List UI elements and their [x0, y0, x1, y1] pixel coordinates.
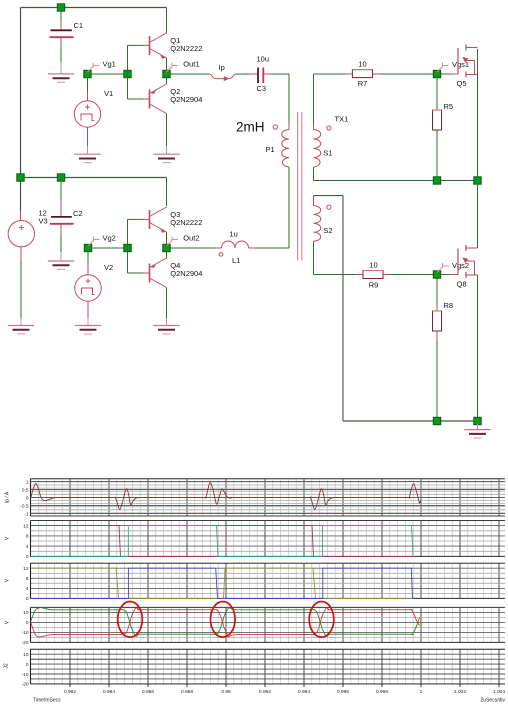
svg-text:0: 0 — [26, 554, 29, 560]
node Vg2 — [84, 244, 91, 251]
svg-text:Out2: Out2 — [183, 234, 199, 243]
svg-text:-20: -20 — [22, 682, 29, 688]
pane 4 y labels — [22, 610, 29, 646]
svg-text:S2: S2 — [323, 226, 332, 235]
label Vgs1 — [437, 60, 469, 72]
capacitor C3 10u — [237, 55, 290, 94]
svg-text:1u: 1u — [230, 230, 238, 239]
svg-text:R8: R8 — [444, 301, 454, 310]
pane 3 y labels — [23, 566, 29, 602]
svg-text:V3: V3 — [39, 217, 48, 226]
label Out2 — [167, 234, 200, 246]
svg-text:Time/mSecs: Time/mSecs — [33, 698, 61, 704]
transformer secondary S2 winding — [314, 206, 321, 242]
svg-text:C1: C1 — [74, 21, 84, 30]
svg-text:J2: J2 — [4, 663, 10, 669]
wire Q1 collector drop — [166, 8, 168, 34]
transistor Q5 MOSFET — [441, 45, 478, 89]
svg-text:10: 10 — [358, 60, 366, 69]
label S1 — [323, 148, 332, 157]
ground output — [464, 430, 490, 438]
resistor R5 — [433, 102, 454, 130]
node R8 / bottom rail — [433, 417, 440, 424]
resistor R8 — [433, 301, 454, 331]
node Vgs2 gate — [433, 271, 440, 278]
svg-text:0.992: 0.992 — [259, 689, 271, 695]
svg-text:Out1: Out1 — [183, 60, 199, 69]
svg-text:12: 12 — [23, 566, 29, 572]
svg-text:R5: R5 — [444, 102, 454, 111]
svg-text:2mH: 2mH — [236, 120, 265, 135]
trace transformer green — [31, 608, 420, 637]
transistor Q2 Q2N2904 — [128, 84, 203, 114]
capacitor C1 — [50, 8, 84, 74]
ground under V2 — [75, 326, 101, 334]
svg-text:V1: V1 — [104, 89, 113, 98]
resistor R7 10 — [352, 60, 372, 89]
svg-text:0: 0 — [26, 596, 29, 602]
wire gate2 node to R8 — [436, 278, 438, 311]
wire P1 to L1 — [249, 247, 290, 249]
voltage source V3 12V DC — [8, 209, 48, 326]
phase dot P1 — [273, 125, 277, 129]
wire to output ground — [477, 424, 479, 430]
label 2mH — [236, 120, 265, 135]
wire R8 to bottom rail — [436, 331, 438, 417]
svg-text:0: 0 — [26, 662, 29, 668]
svg-text:0.99: 0.99 — [221, 689, 231, 695]
pane 4 caption V — [5, 620, 11, 624]
svg-text:Vg1: Vg1 — [103, 60, 116, 69]
svg-text:10: 10 — [23, 610, 29, 616]
x axis div caption — [481, 698, 506, 704]
svg-text:0: 0 — [26, 495, 29, 501]
svg-text:0.982: 0.982 — [64, 689, 76, 695]
svg-text:S1: S1 — [323, 148, 332, 157]
node Q5 source / Q8 drain — [474, 177, 481, 184]
pane 1 caption Ip / A — [5, 491, 11, 503]
svg-text:0.994: 0.994 — [298, 689, 310, 695]
wire primary bottom — [288, 167, 290, 248]
node Out2 — [163, 244, 170, 251]
node Vgs1 gate — [433, 70, 440, 77]
annotation circle 2 — [211, 602, 236, 638]
annotation circle 1 — [118, 602, 143, 638]
voltage source V1 — [74, 77, 113, 154]
wire Q3 emitter to Out2 — [166, 232, 168, 248]
wire half-bridge node to Q8 drain — [477, 184, 479, 248]
svg-text:4: 4 — [26, 544, 29, 550]
svg-text:Vgs1: Vgs1 — [452, 60, 469, 69]
svg-text:0.988: 0.988 — [181, 689, 193, 695]
svg-text:Vgs2: Vgs2 — [452, 261, 469, 270]
wire Vg2 to bases — [92, 247, 128, 249]
svg-text:10: 10 — [369, 261, 377, 270]
node stage2-rail / C2 — [57, 174, 64, 181]
trace Vg2 — [31, 526, 414, 557]
svg-text:Q2N2904: Q2N2904 — [170, 95, 202, 104]
ground under C1 — [48, 74, 74, 82]
svg-text:1.002: 1.002 — [454, 689, 466, 695]
waveform pane 4 grid — [31, 607, 506, 642]
svg-text:0.984: 0.984 — [103, 689, 115, 695]
svg-text:0.986: 0.986 — [142, 689, 154, 695]
svg-text:0.998: 0.998 — [376, 689, 388, 695]
svg-text:10u: 10u — [257, 55, 270, 64]
label Vg1 — [88, 60, 116, 73]
wire Q8 source down — [477, 275, 479, 417]
svg-text:Q8: Q8 — [457, 280, 467, 289]
svg-text:-10: -10 — [22, 630, 29, 636]
transformer primary P1 winding — [282, 130, 289, 167]
ground under V3 — [8, 326, 34, 334]
node Vg1 — [84, 70, 91, 77]
wire base bus — [127, 45, 129, 99]
svg-text:Q2N2222: Q2N2222 — [170, 218, 202, 227]
voltage source V2 — [75, 251, 113, 326]
wire Out1 to probe — [170, 73, 209, 75]
ground under V1 — [74, 154, 100, 162]
svg-text:R9: R9 — [369, 281, 379, 290]
transformer core — [298, 112, 302, 261]
node R5/S1 bottom — [433, 177, 440, 184]
svg-text:V2: V2 — [104, 263, 113, 272]
svg-text:8: 8 — [26, 534, 29, 540]
wire R9 to gate node — [383, 274, 433, 276]
svg-text:2uSecs/div: 2uSecs/div — [481, 698, 506, 704]
svg-text:0.996: 0.996 — [337, 689, 349, 695]
pane 3 caption V — [5, 578, 11, 582]
svg-text:Ip: Ip — [219, 63, 225, 72]
annotation circle 3 — [309, 602, 334, 638]
wire Vg1 to bases — [91, 73, 128, 75]
waveform pane 3 grid — [31, 563, 506, 598]
svg-text:8: 8 — [26, 576, 29, 582]
phase dot S1 — [327, 126, 331, 130]
transformer secondary S1 winding — [314, 130, 321, 167]
pane 1 y labels — [20, 479, 29, 517]
pane 2 caption V — [5, 536, 11, 540]
svg-text:-10: -10 — [22, 672, 29, 678]
trace Out1 — [31, 568, 414, 598]
svg-text:C3: C3 — [257, 84, 267, 93]
trace Out2 — [31, 568, 414, 598]
label Vg2 — [88, 234, 116, 247]
node top-rail / C1 — [57, 4, 64, 11]
node Q1/Q2 base — [124, 70, 131, 77]
trace Ip current — [31, 483, 421, 510]
wire R7 to gate node — [373, 73, 434, 75]
svg-text:Ip / A: Ip / A — [5, 491, 11, 503]
svg-text:1: 1 — [420, 689, 423, 695]
wire R5 to source node — [436, 130, 438, 177]
wire +12V top rail — [21, 7, 167, 9]
node Q8 source / bottom rail — [474, 417, 481, 424]
label S2 — [323, 226, 332, 235]
transistor Q4 Q2N2904 — [128, 258, 203, 288]
pane 5 caption — [4, 663, 10, 669]
wire stage-2 supply rail — [21, 177, 167, 179]
pane 2 y labels — [23, 523, 29, 560]
svg-text:L1: L1 — [232, 256, 240, 265]
wire Q2 collector to ground — [166, 114, 168, 155]
svg-text:Q2N2222: Q2N2222 — [170, 44, 202, 53]
resistor R9 10 — [363, 261, 383, 290]
label Out1 — [167, 60, 200, 72]
svg-text:4: 4 — [26, 586, 29, 592]
capacitor C2 — [50, 178, 83, 262]
wire Q3 collector drop — [166, 178, 168, 207]
transistor Q1 Q2N2222 — [128, 33, 203, 59]
ground under Q2 — [153, 154, 179, 162]
waveform pane 5 grid — [31, 649, 506, 684]
wire base bus 2 — [127, 219, 129, 273]
x axis ticks — [70, 684, 499, 687]
svg-text:1.004: 1.004 — [493, 689, 505, 695]
label Vgs2 — [437, 261, 469, 273]
svg-text:-20: -20 — [22, 640, 29, 646]
svg-text:C2: C2 — [73, 209, 83, 218]
svg-text:-0.5: -0.5 — [20, 503, 29, 509]
wire S1 top to R7 — [314, 74, 353, 130]
x axis caption — [33, 698, 61, 704]
inductor L1 1u — [215, 230, 249, 266]
svg-text:0.5: 0.5 — [22, 487, 29, 493]
transistor Q3 Q2N2222 — [128, 207, 203, 233]
wire gate node to R5 — [436, 77, 438, 110]
svg-text:10: 10 — [23, 652, 29, 658]
wire Q4 collector to ground — [166, 288, 168, 326]
svg-text:12: 12 — [23, 523, 29, 529]
wire L1 to Out2 — [170, 247, 215, 249]
wire source row link — [441, 180, 474, 182]
wire bottom return rail — [343, 420, 478, 422]
node stage2-rail / left rail — [17, 174, 24, 181]
phase dot S2 — [327, 205, 331, 209]
svg-text:Q5: Q5 — [457, 79, 467, 88]
transistor Q8 MOSFET — [441, 245, 478, 289]
wire Out1 to Q2 emitter — [166, 74, 168, 84]
wire left supply rail — [20, 8, 22, 212]
node Out1 — [163, 70, 170, 77]
trace Vg1 — [31, 526, 414, 557]
trace transformer red — [31, 608, 420, 637]
wire S2 bottom to R9 — [314, 241, 364, 274]
wire Q1 emitter to Out1 — [166, 58, 168, 74]
svg-text:-1: -1 — [24, 511, 29, 517]
waveform pane 2 grid — [31, 521, 506, 557]
svg-text:Vg2: Vg2 — [103, 234, 116, 243]
label TX1 — [335, 115, 349, 124]
x axis labels — [64, 689, 505, 695]
ground under C2 — [48, 261, 74, 269]
wire C3 to primary — [288, 74, 290, 130]
svg-text:P1: P1 — [266, 145, 275, 154]
wire Out2 to Q4 emitter — [166, 248, 168, 258]
svg-text:Q2N2904: Q2N2904 — [170, 269, 202, 278]
current probe Ip — [209, 63, 237, 81]
wire S2 top to ground rail — [314, 196, 344, 421]
waveform pane 1 grid — [31, 479, 506, 516]
ground under Q4 — [153, 326, 179, 334]
label P1 — [266, 145, 275, 154]
svg-text:R7: R7 — [358, 79, 368, 88]
wire Q5 source down — [477, 49, 479, 177]
trace pane 5 — [31, 658, 420, 660]
node Q3/Q4 base — [124, 244, 131, 251]
svg-text:1: 1 — [26, 479, 29, 485]
wire S1 bottom — [314, 167, 434, 181]
svg-text:TX1: TX1 — [335, 115, 349, 124]
pane 5 y labels — [22, 652, 29, 688]
svg-text:0: 0 — [26, 620, 29, 626]
